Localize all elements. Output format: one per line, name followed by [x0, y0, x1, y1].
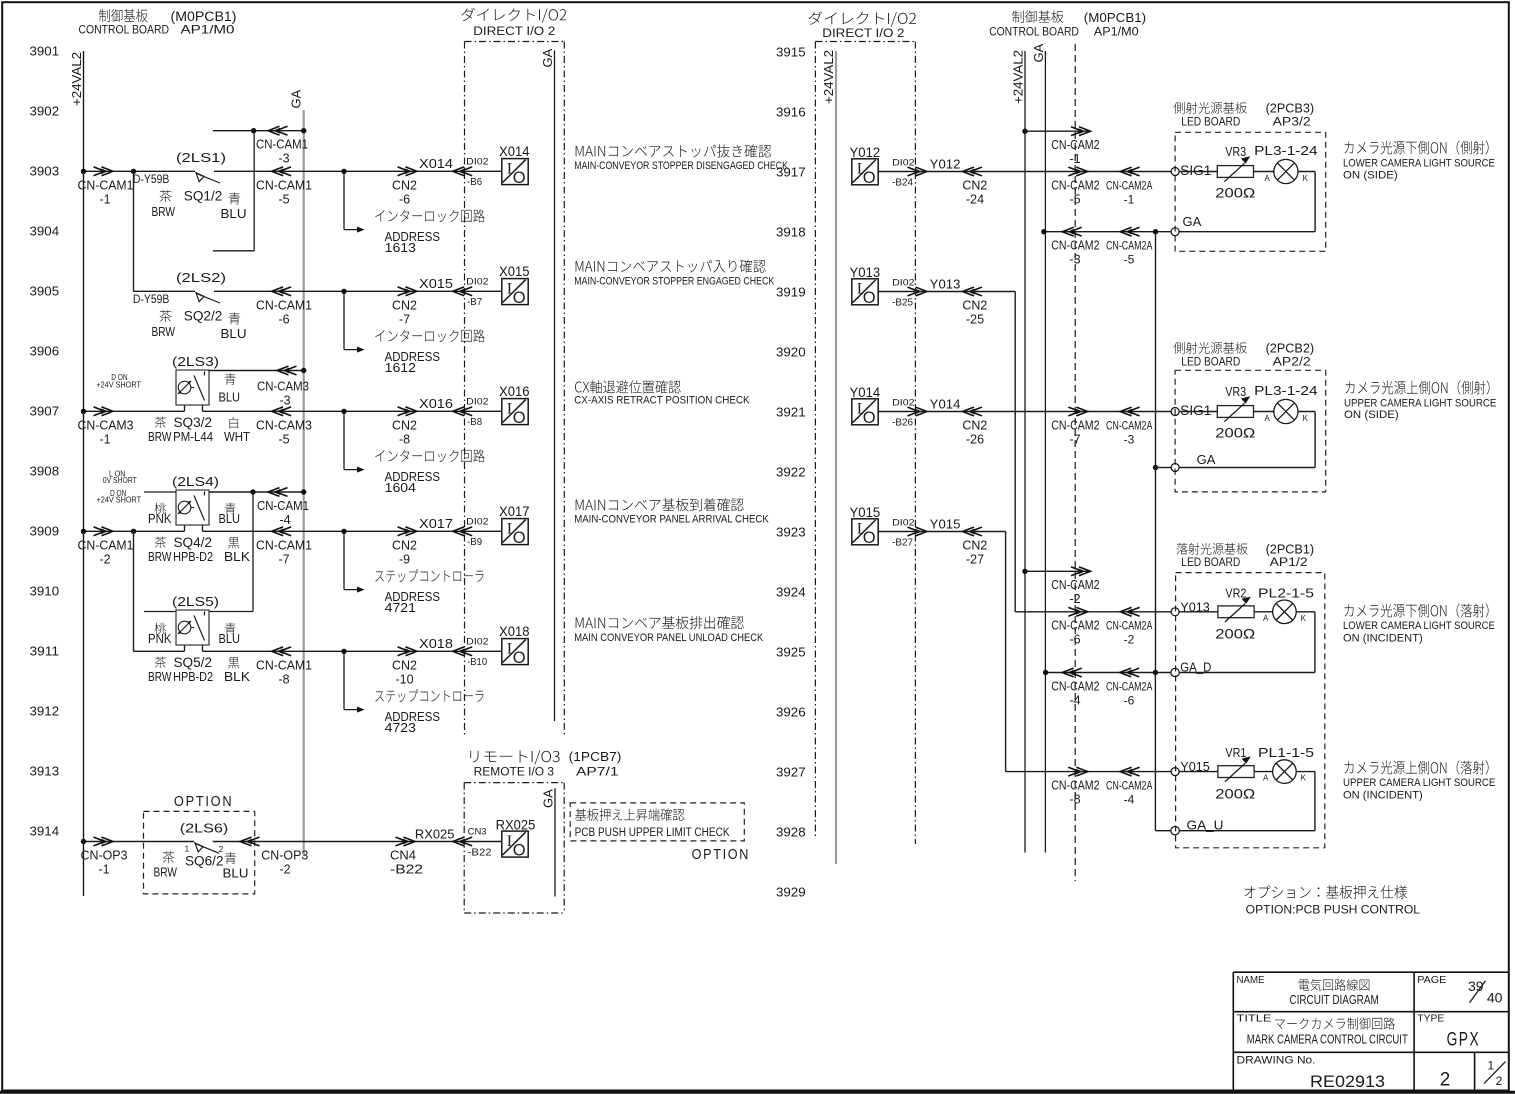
svg-text:-B24: -B24: [892, 176, 913, 188]
svg-text:X017: X017: [419, 516, 453, 531]
svg-text:BLK: BLK: [224, 670, 251, 684]
svg-text:CN-OP3: CN-OP3: [81, 849, 128, 863]
wire GA_D rung 3925: [1046, 672, 1171, 674]
svg-text:LED BOARD: LED BOARD: [1181, 557, 1240, 569]
svg-text:-7: -7: [1069, 432, 1080, 446]
svg-text:(2PCB1): (2PCB1): [1266, 543, 1315, 557]
wire CN-CAM3-3 (SQ3 upper contact to GA): [209, 370, 304, 372]
svg-text:CN2: CN2: [962, 299, 987, 313]
svg-text:-4: -4: [1069, 693, 1080, 707]
svg-text:3903: 3903: [30, 164, 60, 179]
svg-text:AP3/2: AP3/2: [1273, 116, 1311, 128]
svg-text:3924: 3924: [776, 585, 806, 600]
svg-text:-B8: -B8: [467, 416, 482, 428]
svg-text:-8: -8: [1069, 793, 1080, 807]
svg-text:CN3: CN3: [468, 827, 487, 838]
svg-text:DI02: DI02: [466, 157, 488, 168]
svg-text:BLU: BLU: [219, 390, 241, 404]
svg-text:3921: 3921: [776, 405, 806, 420]
svg-text:A: A: [1265, 414, 1271, 423]
lamp PL2-1-5 (2PCB1): [1255, 611, 1273, 613]
svg-text:GA: GA: [1183, 214, 1202, 229]
svg-text:-B22: -B22: [468, 846, 492, 858]
wire lamp to GA (2PCB2): [1298, 411, 1315, 413]
svg-text:A: A: [1263, 614, 1269, 623]
svg-text:RE02913: RE02913: [1310, 1073, 1385, 1091]
wire SQ1 contact loop: [253, 131, 255, 251]
header: direct I/O 2 (left): [461, 8, 566, 23]
wire GA rung 3918: [1044, 231, 1171, 233]
header: control board (left): [99, 9, 147, 22]
svg-text:AP1/2: AP1/2: [1270, 557, 1308, 569]
svg-text:CN-CAM1: CN-CAM1: [256, 299, 312, 313]
svg-text:3911: 3911: [30, 644, 60, 659]
svg-text:-8: -8: [399, 433, 410, 447]
proximity switch SQ4/2 (2LS4): [176, 490, 209, 525]
svg-text:3916: 3916: [776, 105, 806, 120]
svg-text:3928: 3928: [776, 825, 806, 840]
svg-text:REMOTE I/O 3: REMOTE I/O 3: [474, 767, 554, 779]
svg-text:-5: -5: [278, 433, 289, 447]
svg-text:0V SHORT: 0V SHORT: [103, 476, 137, 485]
svg-text:CN-CAM2: CN-CAM2: [1051, 779, 1099, 793]
svg-text:UPPER CAMERA LIGHT SOURCE: UPPER CAMERA LIGHT SOURCE: [1343, 777, 1495, 789]
svg-text:-1: -1: [1124, 192, 1135, 206]
svg-text:-6: -6: [1069, 633, 1080, 647]
svg-text:D-Y59B: D-Y59B: [133, 294, 170, 306]
I/O module Y012 rung 3917: [852, 159, 878, 185]
svg-text:-5: -5: [1069, 192, 1080, 206]
svg-text:CN-CAM2A: CN-CAM2A: [1106, 779, 1152, 793]
svg-text:O: O: [863, 289, 876, 307]
svg-text:3912: 3912: [30, 704, 60, 719]
svg-text:VR3: VR3: [1225, 384, 1246, 399]
svg-text:3909: 3909: [30, 524, 60, 539]
svg-text:NAME: NAME: [1237, 974, 1265, 986]
svg-text:CN-CAM1: CN-CAM1: [256, 659, 312, 673]
svg-text:PNK: PNK: [148, 512, 172, 526]
svg-text:(2LS4): (2LS4): [172, 474, 219, 489]
svg-text:PL1-1-5: PL1-1-5: [1258, 745, 1314, 760]
svg-text:DI02: DI02: [892, 277, 914, 288]
svg-text:PL2-1-5: PL2-1-5: [1258, 585, 1314, 600]
svg-text:3906: 3906: [30, 344, 60, 359]
header: remote I/O 3: [470, 750, 559, 764]
svg-text:CN-CAM2: CN-CAM2: [1051, 138, 1099, 152]
svg-text:-1: -1: [98, 863, 109, 877]
svg-text:-4: -4: [279, 513, 290, 527]
header: control board (right): [1012, 10, 1063, 23]
svg-text:LED BOARD: LED BOARD: [1181, 356, 1240, 368]
svg-text:D-Y59B: D-Y59B: [133, 174, 170, 186]
svg-text:CN-CAM2A: CN-CAM2A: [1106, 418, 1152, 432]
svg-text:SQ3/2: SQ3/2: [174, 415, 213, 430]
svg-text:(1PCB7): (1PCB7): [569, 749, 622, 764]
svg-text:GA_U: GA_U: [1187, 818, 1224, 833]
svg-text:Y015: Y015: [930, 516, 961, 531]
I/O module X015: [502, 279, 528, 305]
svg-text:3922: 3922: [776, 465, 806, 480]
svg-text:200Ω: 200Ω: [1215, 425, 1255, 441]
svg-text:3929: 3929: [776, 885, 806, 900]
svg-text:MAIN-CONVEYOR STOPPER DISENGA: MAIN-CONVEYOR STOPPER DISENGAGED CHECK: [574, 160, 788, 172]
svg-text:OPTION:PCB PUSH CONTROL: OPTION:PCB PUSH CONTROL: [1246, 902, 1421, 916]
svg-text:VR3: VR3: [1225, 144, 1246, 159]
GA net line inside direct I/O 2 (left): [554, 51, 556, 722]
I/O module X018: [502, 639, 528, 665]
svg-text:(2LS6): (2LS6): [180, 820, 229, 835]
wire CN-CAM1-3 (SQ1 upper contact to GA): [213, 130, 304, 132]
svg-text:Y015: Y015: [850, 505, 881, 520]
svg-text:-5: -5: [1124, 253, 1135, 267]
svg-text:+24VAL2: +24VAL2: [69, 52, 84, 106]
svg-text:+24VAL2: +24VAL2: [1010, 50, 1025, 104]
svg-text:3926: 3926: [776, 705, 806, 720]
svg-text:K: K: [1303, 174, 1309, 183]
LED board 2PCB2 enclosure: [1175, 370, 1326, 492]
svg-text:(2PCB3): (2PCB3): [1266, 102, 1315, 116]
proximity switch SQ3/2 (2LS3): [176, 370, 209, 405]
svg-text:CN-CAM2A: CN-CAM2A: [1106, 178, 1152, 192]
resistor VR1 (2PCB1) 200ohm: [1179, 771, 1218, 773]
svg-text:CN-CAM1: CN-CAM1: [78, 179, 134, 193]
svg-text:-2: -2: [1124, 633, 1135, 647]
svg-text:BRW: BRW: [152, 205, 176, 219]
svg-text:-B7: -B7: [467, 296, 482, 308]
svg-text:BLK: BLK: [224, 550, 251, 564]
svg-text:VR1: VR1: [1225, 745, 1246, 760]
terminal SIG1 (2PCB3): [1171, 168, 1179, 176]
svg-text:SQ5/2: SQ5/2: [174, 655, 213, 670]
header: direct I/O 2 (right): [808, 11, 916, 26]
svg-text:CN-CAM2A: CN-CAM2A: [1106, 619, 1152, 633]
wire rung 3914 (option): [84, 841, 195, 843]
svg-text:DIRECT I/O 2: DIRECT I/O 2: [822, 28, 904, 40]
svg-text:MAIN-CONVEYOR STOPPER ENGAGED: MAIN-CONVEYOR STOPPER ENGAGED CHECK: [574, 275, 775, 287]
annotation: upper camera light source on (side): [1346, 380, 1490, 394]
svg-text:CX-AXIS RETRACT POSITION CHECK: CX-AXIS RETRACT POSITION CHECK: [574, 394, 750, 406]
svg-text:I: I: [857, 281, 862, 298]
GA bus (control board): [1044, 51, 1046, 853]
svg-text:O: O: [513, 409, 526, 427]
svg-text:BLU: BLU: [221, 327, 247, 341]
svg-text:O: O: [863, 409, 876, 427]
svg-text:LED BOARD: LED BOARD: [1181, 116, 1240, 128]
svg-text:CN-CAM2: CN-CAM2: [1051, 578, 1099, 592]
direct I/O 2 enclosure (right, dashed): [815, 41, 915, 43]
svg-text:-3: -3: [278, 152, 289, 166]
svg-text:O: O: [513, 289, 526, 307]
svg-text:ON (INCIDENT): ON (INCIDENT): [1343, 633, 1423, 645]
wire SQ4 upper-left stub: [144, 491, 176, 493]
proximity switch SQ5/2 (2LS5): [176, 610, 209, 645]
svg-text:-10: -10: [395, 673, 413, 687]
svg-text:GA: GA: [289, 89, 304, 108]
svg-text:DI02: DI02: [892, 517, 914, 528]
wire +24V feed CN-CAM2-1: [1022, 129, 1027, 134]
+24VAL2 bus (control board): [1024, 51, 1026, 853]
lamp PL3-1-24 (2PCB3): [1254, 171, 1274, 173]
resistor VR2 (2PCB1) 200ohm: [1179, 611, 1218, 613]
annotation: lower camera light source on (incident): [1345, 603, 1489, 617]
lamp PL3-1-24 (2PCB2): [1254, 411, 1274, 413]
GA collector wire (vertical): [1155, 232, 1157, 673]
LED board 2PCB3 enclosure: [1175, 132, 1326, 251]
svg-text:AP1/M0: AP1/M0: [1094, 26, 1139, 38]
annotation: main conveyor panel unload check: [576, 616, 744, 629]
svg-text:-26: -26: [966, 433, 984, 447]
wire rung 3903: [84, 170, 196, 172]
svg-text:O: O: [863, 169, 876, 187]
svg-text:CN-CAM2: CN-CAM2: [1051, 178, 1099, 192]
svg-text:PL3-1-24: PL3-1-24: [1254, 143, 1318, 158]
svg-text:CN-CAM2: CN-CAM2: [1051, 239, 1099, 253]
svg-text:CN-CAM3: CN-CAM3: [257, 380, 309, 394]
svg-text:PL3-1-24: PL3-1-24: [1254, 383, 1318, 398]
svg-text:X018: X018: [419, 636, 453, 651]
svg-text:200Ω: 200Ω: [1215, 626, 1255, 642]
svg-text:DI02: DI02: [466, 277, 488, 288]
limit switch SQ2/2 (2LS2): [196, 293, 204, 302]
svg-text:X014: X014: [499, 144, 530, 159]
svg-text:CN2: CN2: [392, 659, 417, 673]
svg-text:I: I: [857, 401, 862, 418]
svg-text:GA: GA: [540, 789, 555, 808]
svg-text:O: O: [513, 841, 526, 859]
annotation: main-conveyor panel arrival check: [576, 498, 744, 511]
svg-text:3919: 3919: [776, 285, 806, 300]
+24VAL2 bus (left): [83, 51, 85, 896]
svg-text:+24V SHORT: +24V SHORT: [97, 495, 142, 504]
svg-text:BLU: BLU: [219, 632, 241, 646]
svg-text:CN-CAM2: CN-CAM2: [1051, 679, 1099, 693]
svg-text:MAIN CONVEYOR PANEL UNLOAD CHE: MAIN CONVEYOR PANEL UNLOAD CHECK: [574, 632, 764, 644]
svg-text:3902: 3902: [30, 104, 60, 119]
svg-text:-25: -25: [966, 313, 984, 327]
svg-text:1613: 1613: [385, 241, 416, 255]
annotation: upper camera light source on (incident): [1345, 760, 1489, 774]
svg-text:-6: -6: [399, 193, 410, 207]
svg-text:SIG1: SIG1: [1180, 163, 1211, 178]
svg-text:X015: X015: [499, 264, 530, 279]
svg-text:-6: -6: [278, 313, 289, 327]
svg-text:Y014: Y014: [930, 396, 961, 411]
svg-text:-8: -8: [278, 673, 289, 687]
svg-text:HPB-D2: HPB-D2: [173, 550, 213, 564]
svg-text:(2LS1): (2LS1): [176, 150, 226, 165]
wire lamp to GA (2PCB3): [1298, 171, 1315, 173]
svg-text:CN-CAM1: CN-CAM1: [256, 539, 312, 553]
wire rung 3911: [134, 650, 185, 652]
svg-text:SQ6/2: SQ6/2: [185, 854, 224, 869]
I/O module RX025: [502, 831, 528, 857]
terminal GA (2PCB3): [1171, 228, 1179, 236]
svg-text:SIG1: SIG1: [1180, 403, 1211, 418]
svg-text:AP2/2: AP2/2: [1273, 356, 1311, 368]
svg-text:CN2: CN2: [392, 419, 417, 433]
svg-text:SQ1/2: SQ1/2: [184, 189, 223, 204]
svg-text:DI02: DI02: [892, 397, 914, 408]
svg-text:(2LS5): (2LS5): [172, 594, 219, 609]
svg-text:Y013: Y013: [930, 276, 961, 291]
resistor VR3 (2PCB3) 200ohm: [1179, 171, 1217, 173]
svg-text:I: I: [507, 641, 512, 658]
svg-text:K: K: [1301, 774, 1307, 783]
svg-text:-B27: -B27: [892, 536, 913, 548]
control board boundary (dashed): [1074, 44, 1076, 881]
svg-text:-1: -1: [1069, 152, 1080, 166]
svg-text:CN2: CN2: [962, 539, 987, 553]
svg-text:O: O: [863, 529, 876, 547]
svg-text:PM-L44: PM-L44: [173, 430, 213, 444]
svg-text:A: A: [1263, 774, 1269, 783]
svg-text:SQ2/2: SQ2/2: [184, 309, 223, 324]
wire rung 3907: [84, 410, 185, 412]
svg-text:I: I: [507, 521, 512, 538]
svg-text:CN-CAM2A: CN-CAM2A: [1106, 239, 1152, 253]
annotation: cx-axis retract position check: [575, 380, 681, 393]
svg-text:3904: 3904: [30, 224, 60, 239]
svg-text:BRW: BRW: [152, 325, 176, 339]
svg-text:TYPE: TYPE: [1417, 1013, 1444, 1025]
svg-text:PCB PUSH UPPER LIMIT CHECK: PCB PUSH UPPER LIMIT CHECK: [575, 827, 730, 839]
svg-text:+24VAL2: +24VAL2: [821, 50, 836, 104]
lamp PL1-1-5 (2PCB1): [1255, 771, 1273, 773]
direct I/O 2 enclosure (left, dashed): [465, 41, 565, 43]
svg-text:(M0PCB1): (M0PCB1): [1084, 10, 1146, 25]
svg-text:RX025: RX025: [496, 818, 536, 833]
terminal GA_U (2PCB1): [1171, 827, 1179, 835]
svg-text:I: I: [507, 833, 512, 850]
wire rung 3905: [134, 290, 196, 292]
I/O module X016: [502, 399, 528, 425]
svg-text:OPTION: OPTION: [692, 846, 751, 863]
svg-text:40: 40: [1487, 989, 1503, 1005]
svg-text:(2LS2): (2LS2): [176, 270, 226, 285]
svg-text:4721: 4721: [385, 601, 416, 615]
svg-text:CN-CAM1: CN-CAM1: [257, 499, 309, 513]
wire Y013 route down: [1014, 292, 1016, 612]
svg-text:(2PCB2): (2PCB2): [1266, 342, 1315, 356]
svg-text:3910: 3910: [30, 584, 60, 599]
terminal GA (2PCB2): [1171, 464, 1179, 472]
svg-text:-B22: -B22: [390, 863, 423, 877]
I/O module Y015 rung 3923: [852, 519, 878, 545]
svg-text:RX025: RX025: [415, 826, 455, 841]
svg-text:Y012: Y012: [930, 156, 961, 171]
svg-text:1: 1: [185, 844, 190, 854]
svg-text:AP7/1: AP7/1: [576, 767, 619, 779]
limit switch SQ1/2 (2LS1): [196, 173, 204, 182]
svg-text:PNK: PNK: [148, 632, 172, 646]
svg-text:CN2: CN2: [392, 539, 417, 553]
svg-text:LOWER CAMERA LIGHT SOURCE: LOWER CAMERA LIGHT SOURCE: [1343, 620, 1495, 632]
svg-text:+24V SHORT: +24V SHORT: [96, 381, 141, 390]
svg-text:CONTROL BOARD: CONTROL BOARD: [989, 26, 1079, 38]
annotation: main-conveyor stopper engaged check: [576, 259, 766, 272]
svg-text:4723: 4723: [385, 721, 416, 735]
svg-text:DIRECT I/O 2: DIRECT I/O 2: [473, 26, 555, 38]
svg-text:X015: X015: [419, 276, 453, 291]
svg-text:BRW: BRW: [148, 550, 172, 564]
I/O module X014: [502, 159, 528, 185]
svg-text:GA_D: GA_D: [1180, 659, 1211, 674]
svg-text:CN2: CN2: [962, 419, 987, 433]
svg-text:I: I: [507, 281, 512, 298]
resistor VR3 (2PCB2) 200ohm: [1179, 411, 1217, 413]
wire branch 3909-3911: [133, 531, 135, 651]
annotation: lower camera light source on (side): [1345, 140, 1489, 154]
svg-text:2: 2: [1440, 1070, 1451, 1091]
svg-text:-2: -2: [1069, 592, 1080, 606]
I/O module Y014 rung 3921: [852, 399, 878, 425]
+24VAL2 bus (right direct I/O, gray): [835, 51, 837, 864]
svg-text:CN-CAM1: CN-CAM1: [256, 179, 312, 193]
svg-text:-4: -4: [1124, 793, 1135, 807]
wire branch 3903-3905: [133, 171, 135, 291]
svg-text:OPTION: OPTION: [174, 793, 233, 810]
svg-text:X018: X018: [499, 624, 530, 639]
svg-text:DI02: DI02: [892, 157, 914, 168]
svg-text:2: 2: [219, 844, 224, 854]
I/O module Y013 rung 3919: [852, 279, 878, 305]
svg-text:O: O: [513, 529, 526, 547]
svg-text:3913: 3913: [30, 764, 60, 779]
remote I/O 3 enclosure (dashed): [464, 782, 564, 784]
annotation: PCB push upper limit check (dashed box): [570, 803, 744, 841]
GA collector wire (vertical, lower): [1154, 673, 1156, 831]
svg-text:Y013: Y013: [850, 265, 881, 280]
wire lamp PL2 to GA_D: [1296, 611, 1315, 613]
svg-text:-7: -7: [278, 553, 289, 567]
svg-text:I: I: [857, 161, 862, 178]
svg-text:CN-CAM2A: CN-CAM2A: [1106, 679, 1152, 693]
svg-text:I: I: [857, 521, 862, 538]
svg-text:CN-OP3: CN-OP3: [261, 849, 308, 863]
svg-text:BRW: BRW: [154, 866, 178, 880]
svg-text:-B6: -B6: [467, 176, 482, 188]
svg-text:GA: GA: [1197, 452, 1216, 467]
svg-text:X014: X014: [419, 156, 453, 171]
svg-text:2: 2: [1496, 1074, 1503, 1088]
svg-text:-B25: -B25: [892, 296, 913, 308]
svg-text:HPB-D2: HPB-D2: [173, 670, 213, 684]
svg-text:3908: 3908: [30, 464, 60, 479]
svg-text:CN-CAM2: CN-CAM2: [1051, 418, 1099, 432]
wire CN-CAM1-4 (SQ4 upper contact to GA): [209, 491, 304, 493]
svg-text:BRW: BRW: [148, 430, 172, 444]
svg-text:ON (SIDE): ON (SIDE): [1343, 170, 1398, 182]
svg-text:BRW: BRW: [148, 670, 172, 684]
svg-text:-B9: -B9: [467, 536, 482, 548]
svg-text:3915: 3915: [776, 45, 806, 60]
svg-text:DI02: DI02: [466, 397, 488, 408]
svg-text:O: O: [513, 649, 526, 667]
svg-text:-5: -5: [278, 193, 289, 207]
svg-text:MAIN-CONVEYOR PANEL ARRIVAL CH: MAIN-CONVEYOR PANEL ARRIVAL CHECK: [574, 513, 769, 525]
svg-text:-7: -7: [399, 313, 410, 327]
svg-text:3918: 3918: [776, 225, 806, 240]
svg-text:Y012: Y012: [850, 145, 881, 160]
svg-text:CN2: CN2: [962, 179, 987, 193]
svg-text:GA: GA: [1031, 43, 1046, 62]
GA net line inside remote I/O 3: [554, 788, 556, 896]
annotation: main-conveyor stopper disengaged check: [576, 144, 772, 157]
svg-text:1: 1: [1488, 1059, 1495, 1073]
svg-text:-6: -6: [1124, 693, 1135, 707]
wire +24V feed CN-CAM2-2: [1022, 569, 1027, 574]
svg-text:CN-CAM1: CN-CAM1: [78, 539, 134, 553]
